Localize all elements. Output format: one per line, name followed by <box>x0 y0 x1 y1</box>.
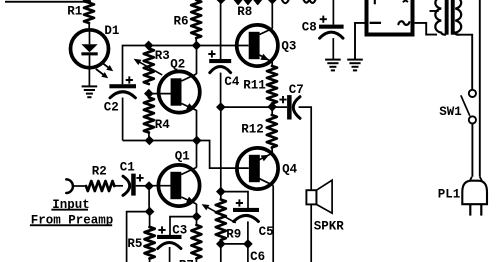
node C4 / R11 wire <box>216 102 226 112</box>
wire C5/R9 bottom run <box>221 243 248 245</box>
wire C4 column to R9 <box>220 107 222 192</box>
wire C2 bottom to feedback run <box>122 98 124 141</box>
node C5 / C6 <box>243 239 253 249</box>
node R6 bottom / Q2 collector <box>192 41 202 51</box>
LED D1 <box>71 30 109 68</box>
label R5 <box>127 237 142 251</box>
label C7 <box>289 83 304 97</box>
svg-text:R11: R11 <box>243 79 266 93</box>
label C5 <box>259 225 274 239</box>
rectifier ~ terminal mark <box>398 21 409 25</box>
resistor R8 (cropped at top rail) <box>234 0 261 4</box>
transformer T1 secondary winding <box>455 0 461 35</box>
node top rail / C4 <box>216 0 226 4</box>
svg-text:Q1: Q1 <box>175 150 190 164</box>
input jack J1 <box>66 179 73 193</box>
trimmer R9 wiper arrow <box>202 204 236 223</box>
label R6 <box>174 15 189 29</box>
wire rectifier minus to ground <box>355 23 365 59</box>
label R3 <box>155 49 170 63</box>
C8 polarity + <box>320 16 327 23</box>
switch SW1 bottom terminal <box>469 116 476 123</box>
plug PL1 body <box>462 177 487 204</box>
wire C2/R4/Q2-emitter/Q1-collector run to Q4 base <box>123 141 249 169</box>
svg-text:R3: R3 <box>155 49 170 63</box>
wire Q1 emitter down <box>196 204 198 217</box>
transistor Q2 <box>159 71 200 112</box>
cropped title underline (cut text at top edge) <box>5 1 91 3</box>
svg-text:C6: C6 <box>250 250 265 262</box>
wire Q2 emitter down <box>196 110 198 141</box>
svg-text:C4: C4 <box>224 75 240 89</box>
wire R6 to rail node <box>195 38 197 46</box>
capacitor C1 <box>123 174 136 196</box>
svg-text:Q4: Q4 <box>282 162 298 176</box>
label Q3 <box>281 39 296 53</box>
C7 polarity + <box>279 96 286 103</box>
label C3 <box>172 223 187 237</box>
wire R11 top lead <box>271 60 273 67</box>
wire R12 bottom lead <box>271 148 273 154</box>
wire R12 top lead <box>271 107 273 115</box>
svg-text:Q2: Q2 <box>170 58 185 72</box>
node R5 top <box>145 207 155 217</box>
label R1 <box>67 5 82 19</box>
svg-text:SPKR: SPKR <box>314 219 345 233</box>
resistor R2 <box>86 181 114 191</box>
plug PL1 prongs <box>470 204 481 215</box>
capacitor C7 <box>287 95 300 119</box>
wire Q1 base node down <box>148 186 150 212</box>
label R4 <box>155 118 171 132</box>
label Q4 <box>282 162 298 176</box>
svg-text:C2: C2 <box>104 101 119 115</box>
svg-text:R4: R4 <box>155 118 171 132</box>
node Q2 emitter / Q1 collector <box>192 136 202 146</box>
capacitor C4 <box>209 59 231 73</box>
resistor R12 <box>267 115 277 148</box>
wire rectifier to transformer primary <box>415 23 437 35</box>
wire R11 node run <box>221 106 287 108</box>
wire Q3 collector to top rail <box>271 0 273 29</box>
label R7 <box>179 258 194 262</box>
svg-text:D1: D1 <box>104 24 119 38</box>
wire C1 to Q1 base node <box>136 185 149 187</box>
node R4 bottom <box>145 136 155 146</box>
wire jack to R2 <box>72 185 86 187</box>
svg-text:C7: C7 <box>289 83 304 97</box>
label R9 <box>226 228 241 242</box>
svg-text:SW1: SW1 <box>439 105 462 119</box>
wire C6 lead to image bottom <box>247 244 249 262</box>
wire D1 to ground <box>88 68 90 86</box>
ground under rectifier <box>347 60 363 71</box>
label Q1 <box>175 150 190 164</box>
rectifier - terminal mark <box>370 22 381 24</box>
wire C8 top lead <box>332 0 334 25</box>
rectifier/power-supply box U1 <box>367 0 413 35</box>
svg-text:C8: C8 <box>302 21 317 35</box>
ground under C8 <box>325 60 341 71</box>
wire R9 leads <box>220 192 222 244</box>
label R12 <box>241 122 264 136</box>
label R8 <box>237 5 252 19</box>
node R3 top <box>144 41 154 51</box>
wire C7 to speaker <box>299 107 312 262</box>
C5 polarity + <box>236 199 243 206</box>
svg-text:R5: R5 <box>127 237 142 251</box>
wire R9 node to C5 <box>221 192 248 208</box>
wire hop arcs on top rail <box>282 0 316 3</box>
label R2 <box>92 165 107 179</box>
wire R5 leads <box>149 212 151 262</box>
wire transformer primary top stub <box>430 10 439 12</box>
node R9 bottom <box>216 239 226 249</box>
svg-text:R8: R8 <box>237 5 252 19</box>
transistor Q4 <box>237 148 278 189</box>
transformer T1 core <box>445 0 455 35</box>
ground under D1 <box>82 86 98 97</box>
wire Q4 collector to image bottom <box>272 185 274 262</box>
label C2 <box>104 101 119 115</box>
label From Preamp <box>30 214 113 228</box>
node C4 / R9 / C5 <box>216 187 226 197</box>
switch SW1 lever <box>461 95 470 116</box>
wire C4 bottom lead <box>220 73 222 108</box>
svg-text:Q3: Q3 <box>281 39 296 53</box>
wire C2 top lead and +15V-node rail to Q3 base <box>123 46 249 85</box>
wire R1 to D1 <box>88 23 90 30</box>
label R11 <box>243 79 266 93</box>
capacitor C8 <box>319 25 344 39</box>
node C1 / Q1 base <box>144 181 154 191</box>
wire Q2 collector up <box>196 46 198 75</box>
rectifier + terminal mark (cropped) <box>374 0 376 4</box>
svg-text:R1: R1 <box>67 5 82 19</box>
resistor R11 <box>267 66 277 104</box>
resistor R6 <box>191 0 201 38</box>
wire mains cord right conductor <box>479 0 481 177</box>
trimmer R3 wiper arrow <box>134 59 163 75</box>
svg-text:R12: R12 <box>241 122 264 136</box>
node top rail / Q3 collector <box>267 0 277 4</box>
label C4 <box>224 75 240 89</box>
C4 polarity + <box>208 50 215 57</box>
svg-text:R6: R6 <box>174 15 189 29</box>
node R11 / R12 / C7 <box>267 102 277 112</box>
label Q2 <box>170 58 185 72</box>
label D1 <box>104 24 119 38</box>
wire R9 bottom to image bottom <box>220 244 222 262</box>
C2 polarity + <box>126 76 133 83</box>
C3 polarity + <box>158 226 165 233</box>
label PL1 <box>438 188 461 202</box>
node Q1 emitter / C3 / R7 <box>192 212 202 222</box>
wire Q1 base <box>149 185 171 187</box>
wire C5 bottom lead <box>247 221 249 244</box>
node R3/R4/Q2 base <box>144 89 154 99</box>
resistor R3 (trimmer) <box>144 49 154 85</box>
label C1 <box>120 161 135 175</box>
wire R7 leads <box>195 217 197 262</box>
transistor Q1 <box>158 165 199 206</box>
speaker SPKR <box>306 180 332 213</box>
transformer T1 primary winding <box>435 0 446 35</box>
svg-text:R7: R7 <box>179 258 194 262</box>
rectifier ~ mark (cropped) <box>403 1 408 3</box>
svg-text:R2: R2 <box>92 165 107 179</box>
resistor R4 <box>144 98 154 133</box>
svg-text:PL1: PL1 <box>438 188 461 202</box>
wire switch to plug <box>471 124 473 177</box>
label C6 <box>250 250 265 262</box>
wire R2 to C1 <box>114 185 123 187</box>
svg-text:C3: C3 <box>172 223 187 237</box>
wire C3 to bottom <box>169 247 171 262</box>
wire C4 top lead from top rail <box>220 0 222 59</box>
resistor R5 <box>145 227 155 259</box>
wire R11 bottom lead <box>271 104 273 108</box>
transistor Q3 <box>237 25 278 66</box>
capacitor C3 <box>157 235 181 249</box>
resistor R7 <box>191 225 201 259</box>
label SW1 <box>439 105 462 119</box>
wire C3 top lead <box>170 217 197 235</box>
wire secondary to switch <box>459 35 472 90</box>
wire R4 bottom lead <box>148 133 150 141</box>
capacitor C2 <box>109 84 136 98</box>
LED D1 emission arrows <box>96 62 113 79</box>
svg-text:C5: C5 <box>259 225 274 239</box>
C1 polarity + <box>136 174 143 181</box>
label Input <box>51 198 89 212</box>
label C8 <box>302 21 317 35</box>
wire node to left and down to bottom <box>127 212 150 262</box>
wire Q2 base <box>149 93 171 95</box>
switch SW1 top terminal <box>469 90 476 97</box>
wire C8 to ground <box>332 38 334 59</box>
wire Q1 collector up <box>196 141 198 168</box>
capacitor C5 <box>233 208 259 222</box>
resistor R1 <box>84 0 94 23</box>
svg-text:C1: C1 <box>120 161 135 175</box>
svg-text:R9: R9 <box>226 228 241 242</box>
resistor R9 (trimmer) <box>216 200 226 241</box>
label SPKR <box>314 219 345 233</box>
